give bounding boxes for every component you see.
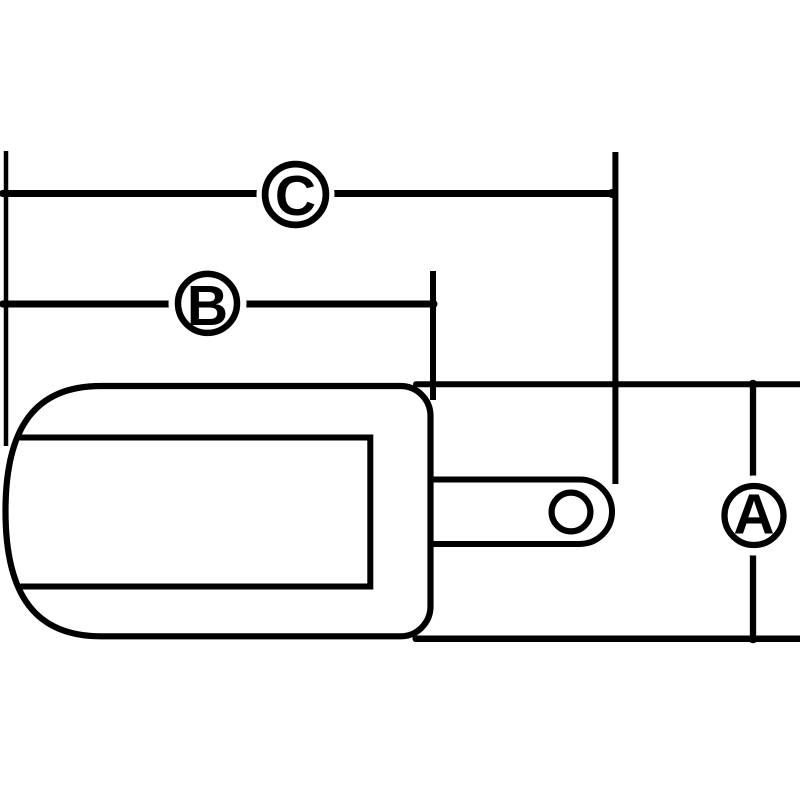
tab with rounded tip <box>432 480 612 545</box>
extension line C right (tab tip) <box>612 152 618 484</box>
extension line left datum <box>4 151 9 446</box>
dot A top end <box>749 380 758 389</box>
label circle C <box>257 156 335 234</box>
extension line B right (body right edge) <box>430 271 436 400</box>
extension line A bottom <box>416 636 800 643</box>
extension line A top <box>416 381 800 387</box>
dot B right end <box>429 300 438 309</box>
dot C right end <box>608 189 617 198</box>
label circle A <box>714 476 794 556</box>
dimension line C <box>3 190 613 197</box>
svg-text:A: A <box>733 483 774 547</box>
dot A bottom end <box>749 634 758 643</box>
body outline <box>6 386 431 636</box>
inner recess rectangle <box>20 438 371 587</box>
dimension line B <box>3 301 434 308</box>
svg-text:B: B <box>187 274 228 338</box>
dimension line A <box>750 384 756 639</box>
dot B left end <box>2 300 11 309</box>
svg-text:C: C <box>275 164 316 228</box>
hole in tab <box>552 493 591 532</box>
label circle B <box>169 264 247 342</box>
dot C left end <box>2 189 11 198</box>
